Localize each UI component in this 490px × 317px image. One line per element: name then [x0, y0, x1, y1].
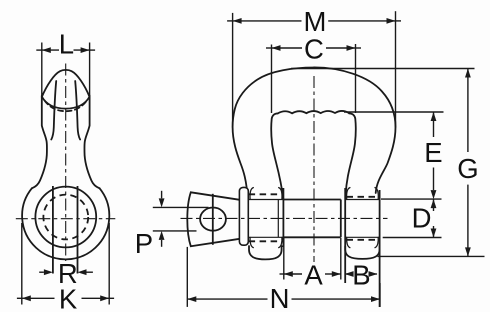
- right ear inner face: [344, 188, 346, 283]
- side-view inner bar edge right: [75, 81, 80, 140]
- right ear boss fillet top-right: [375, 188, 378, 200]
- side-view inner bar edge left: [51, 81, 56, 140]
- D top extension line: [381, 198, 442, 200]
- label L: [59, 29, 74, 60]
- right ear pin edge ticks: [345, 200, 379, 238]
- dim M extension lines: [233, 11, 396, 127]
- dim G: [465, 69, 471, 257]
- side-view outer profile right: [84, 96, 99, 189]
- bolt washer: [239, 187, 248, 245]
- left leg below pin: [249, 246, 282, 259]
- side-view outer profile left: [32, 96, 47, 189]
- bow outer outline left: [233, 68, 314, 200]
- label C: [304, 33, 324, 64]
- dim D: [431, 199, 437, 237]
- dim P arrows: [159, 191, 165, 247]
- left ear boss fillet bottom-left: [250, 237, 253, 247]
- side-view vertical centerline: [65, 64, 67, 262]
- dim R: [39, 269, 93, 275]
- left leg inner edge: [282, 188, 284, 247]
- left ear pin edge ticks: [248, 200, 283, 238]
- G top extension line: [291, 68, 475, 70]
- svg-text:N: N: [270, 283, 290, 312]
- dim L extension lines: [42, 43, 90, 96]
- svg-text:C: C: [304, 33, 324, 64]
- right ear boss fillet bottom-right: [375, 237, 378, 247]
- label R: [58, 258, 78, 289]
- right ear outer face: [379, 190, 381, 307]
- dim B: [345, 271, 378, 277]
- bow inner top wavy line: [278, 111, 349, 113]
- dim A: [280, 271, 341, 277]
- right ear boss fillet top-left: [347, 188, 350, 200]
- side-view dome hidden arc: [45, 101, 87, 112]
- right ear boss fillet bottom-left: [347, 237, 350, 247]
- eye boss circle: [22, 188, 109, 259]
- pin horizontal centerline: [181, 217, 388, 219]
- pin end chamfer line: [277, 200, 279, 238]
- side-view horizontal centerline: [16, 218, 116, 220]
- side-view bow dome outline: [42, 70, 90, 97]
- D bottom extension line: [383, 237, 442, 239]
- label D: [412, 202, 432, 233]
- left ear hidden hole lines: [249, 194, 283, 241]
- svg-text:K: K: [59, 284, 78, 313]
- front-view vertical centerline: [313, 76, 315, 262]
- svg-text:D: D: [412, 202, 432, 233]
- dim M: [227, 18, 401, 24]
- dim K: [17, 295, 114, 301]
- label M: [303, 6, 326, 37]
- eye hole circle: [35, 187, 96, 248]
- svg-text:P: P: [135, 228, 153, 259]
- pin top edge: [283, 199, 340, 201]
- bow inner edge left: [271, 113, 283, 199]
- label E: [424, 137, 442, 168]
- svg-text:E: E: [424, 137, 442, 168]
- bow inner edge right: [346, 113, 356, 194]
- label A: [304, 259, 323, 290]
- left ear boss fillet top-left: [250, 188, 253, 200]
- dim E: [431, 112, 437, 199]
- G bottom extension line: [378, 255, 485, 257]
- svg-text:G: G: [457, 153, 478, 184]
- dim A extension lines: [284, 238, 341, 280]
- dim N extension lines: [187, 247, 380, 307]
- dim P extension lines: [153, 207, 209, 231]
- E top extension line: [344, 111, 444, 113]
- dim L: [36, 47, 95, 53]
- label K: [59, 284, 78, 315]
- label B: [352, 259, 370, 290]
- label P: [135, 228, 153, 259]
- svg-text:A: A: [304, 259, 323, 290]
- right ear hidden hole lines: [347, 197, 379, 240]
- svg-text:B: B: [352, 259, 370, 290]
- bolt head pin hole circle: [200, 208, 226, 231]
- dim N: [187, 296, 380, 302]
- svg-text:L: L: [59, 29, 74, 60]
- label G: [457, 153, 478, 184]
- right leg below pin: [345, 246, 379, 259]
- side-view dome base arc: [42, 97, 90, 109]
- pin right end: [340, 200, 342, 238]
- label N: [270, 283, 290, 314]
- left ear boss fillet top-right: [279, 188, 282, 200]
- dim K extension lines: [22, 223, 109, 305]
- left ear boss fillet bottom-right: [279, 237, 282, 247]
- bolt head outline: [187, 192, 243, 246]
- dim C extension lines: [272, 44, 356, 113]
- bolt head face line: [212, 194, 214, 245]
- bow outer outline right: [314, 67, 396, 193]
- pin bottom edge: [283, 236, 340, 238]
- dim C: [266, 45, 361, 51]
- eye bar edge lines: [53, 186, 78, 274]
- eye thread circle hidden: [43, 195, 88, 240]
